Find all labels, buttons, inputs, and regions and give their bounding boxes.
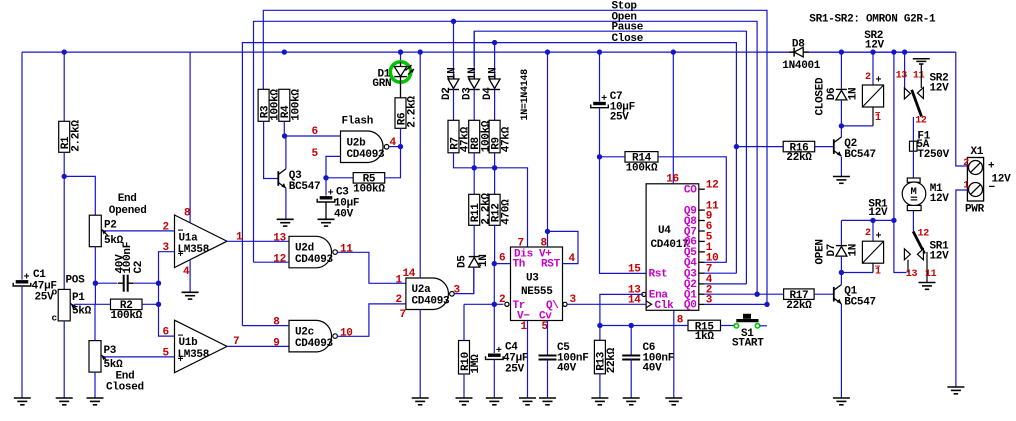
node R2 right	[156, 302, 161, 307]
transistor Q3	[277, 171, 279, 186]
ground C3	[318, 218, 335, 220]
svg-text:2.2kΩ: 2.2kΩ	[70, 120, 82, 152]
svg-text:1N: 1N	[488, 68, 500, 81]
node D4 on Close bus	[492, 40, 497, 45]
svg-text:3: 3	[454, 285, 461, 297]
svg-text:CD4093: CD4093	[295, 338, 334, 350]
node rail junction U4 pin16	[671, 49, 676, 54]
svg-text:8: 8	[541, 237, 548, 249]
U4 pin16 wire	[672, 52, 674, 184]
svg-text:X1: X1	[971, 146, 984, 158]
relay coil SR1	[872, 220, 874, 241]
svg-text:14: 14	[403, 268, 416, 280]
op-amp U1a	[175, 215, 228, 268]
node D2 on Open bus	[451, 19, 456, 24]
counter U4 CD4017	[646, 184, 699, 310]
svg-text:12: 12	[918, 229, 930, 240]
svg-text:RST: RST	[541, 259, 561, 271]
svg-text:40V: 40V	[557, 363, 577, 375]
wire U1a pin8 to rail	[189, 52, 191, 223]
capacitor C4	[493, 304, 495, 353]
svg-text:6: 6	[163, 327, 169, 339]
wire U2a output to D5 and Tr	[454, 268, 474, 294]
svg-text:OPEN: OPEN	[815, 239, 827, 264]
svg-text:CD4093: CD4093	[412, 296, 451, 308]
node Q1 collector	[839, 270, 844, 275]
diode D3 1N4148	[473, 31, 475, 79]
connector X1	[967, 158, 983, 202]
svg-text:3: 3	[163, 242, 170, 254]
node U2b out/R6/R5	[398, 144, 403, 149]
svg-text:6: 6	[499, 252, 505, 264]
svg-text:25V: 25V	[610, 112, 630, 124]
svg-text:CD4093: CD4093	[295, 254, 334, 266]
svg-text:11: 11	[913, 70, 925, 81]
svg-text:P1: P1	[72, 292, 85, 304]
svg-text:2: 2	[396, 294, 402, 306]
svg-text:Q0: Q0	[684, 300, 697, 312]
svg-text:Flash: Flash	[342, 115, 374, 127]
svg-text:8: 8	[677, 315, 684, 327]
wire R5 to U2b output node	[385, 147, 401, 178]
svg-text:U4: U4	[658, 225, 671, 237]
capacitor C2	[95, 282, 117, 284]
svg-text:2: 2	[163, 221, 169, 233]
potentiometer P1	[58, 289, 70, 321]
node rail junction SR2 coil	[870, 49, 875, 54]
resistor R14	[625, 152, 658, 163]
wire SR2 common to F1	[912, 117, 914, 141]
svg-text:CLOSED: CLOSED	[815, 77, 827, 116]
wire D5 to U2a output wire	[473, 267, 475, 294]
wire Tr node to R10	[464, 303, 494, 305]
svg-text:12V: 12V	[992, 173, 1012, 185]
capacitor C1	[21, 52, 23, 280]
svg-text:8: 8	[273, 317, 280, 329]
wire S1 to Stop net	[760, 325, 767, 327]
svg-text:1N=1N4148: 1N=1N4148	[520, 69, 531, 121]
svg-text:C2: C2	[133, 261, 145, 274]
wire U2b pin5	[326, 156, 341, 177]
capacitor C7	[599, 52, 601, 101]
relay coil SR2	[872, 52, 874, 85]
U3 Tr inversion bubble	[505, 302, 509, 306]
capacitor C5	[547, 321, 549, 356]
svg-text:c: c	[52, 313, 58, 324]
svg-text:U1b: U1b	[179, 337, 199, 349]
ground C5	[539, 397, 556, 399]
svg-text:5kΩ: 5kΩ	[104, 235, 124, 247]
wire Close to U2c pin8	[242, 325, 289, 327]
ground U1a	[182, 291, 199, 293]
node A R1/P2/P1	[61, 174, 66, 179]
svg-text:470Ω: 470Ω	[501, 199, 513, 225]
ground C4	[486, 397, 503, 399]
U3 Q output bubble	[563, 302, 567, 306]
U4 pin8 wire to ground	[673, 310, 675, 398]
gate U2c	[289, 320, 332, 352]
diode D5 1N4148	[469, 256, 480, 258]
svg-text:D2: D2	[441, 87, 453, 100]
svg-text:1MΩ: 1MΩ	[470, 354, 482, 374]
svg-text:Rst: Rst	[649, 269, 668, 281]
wire R15 to S1	[721, 325, 735, 327]
svg-text:End: End	[118, 193, 137, 205]
resistor R1	[63, 52, 65, 121]
svg-text:M: M	[911, 186, 917, 198]
capacitor C6	[630, 326, 632, 356]
SR2 contact pin11 + ground above	[920, 65, 922, 89]
wire U2c output to U2a pin2	[337, 304, 406, 336]
wire R14 to Q4	[658, 157, 726, 262]
wire RST bridge	[548, 231, 579, 263]
wire P3 bottom to ground	[94, 372, 96, 398]
svg-text:BC547: BC547	[289, 181, 321, 193]
node Q0/Stop	[764, 302, 769, 307]
svg-text:9: 9	[273, 337, 279, 349]
wire U1a output to U2d pin13	[227, 240, 289, 242]
wire R12 to Th node	[494, 225, 496, 263]
svg-text:D4: D4	[482, 87, 494, 100]
svg-text:6: 6	[312, 126, 318, 138]
svg-text:15: 15	[628, 264, 641, 276]
ground Q2	[833, 176, 850, 178]
node rail junction U3 V+	[545, 49, 550, 54]
resistor R8	[469, 120, 480, 153]
svg-text:+: +	[496, 346, 502, 357]
svg-text:25V: 25V	[505, 364, 525, 376]
LED D1	[400, 52, 402, 62]
svg-text:P2: P2	[104, 220, 117, 232]
wire Pause bus line	[474, 31, 746, 284]
svg-text:11: 11	[340, 244, 353, 256]
resistor R16	[783, 141, 815, 152]
svg-text:14: 14	[628, 295, 641, 307]
diode D2 1N4148	[453, 21, 455, 79]
op-amp U1b	[175, 320, 228, 373]
resistor R6	[395, 98, 406, 129]
ground U4 pin8	[665, 397, 682, 399]
wire U2a pin7 to ground	[419, 310, 421, 399]
resistor R7	[448, 120, 459, 153]
svg-text:1N: 1N	[848, 88, 860, 101]
svg-text:+: +	[328, 189, 334, 200]
svg-text:13: 13	[906, 269, 918, 280]
wire Q3 to Close	[705, 272, 737, 274]
potentiometer P3	[89, 341, 101, 373]
svg-text:12V: 12V	[930, 251, 950, 263]
svg-text:GRN: GRN	[372, 78, 391, 90]
wire Ena net	[600, 294, 643, 325]
node Th	[492, 261, 497, 266]
node Tr	[492, 302, 497, 307]
gate U2a	[406, 278, 449, 310]
wire Ena horizontal to R15	[600, 325, 688, 327]
motor M1	[907, 178, 920, 182]
wire M1 to SR1 common	[912, 211, 914, 232]
svg-text:1N: 1N	[447, 68, 459, 81]
relay contact SR2	[893, 52, 895, 220]
wire U2b output	[389, 146, 401, 148]
resistor R5	[353, 173, 385, 184]
resistor R9	[489, 120, 500, 153]
switch S1 START	[734, 324, 738, 328]
svg-text:POS: POS	[66, 275, 86, 287]
node V+/RST bridge	[545, 229, 550, 234]
node R13 top	[597, 323, 602, 328]
svg-text:100kΩ: 100kΩ	[290, 89, 302, 121]
resistor R2	[111, 299, 143, 310]
wire Q3 collector	[285, 136, 287, 169]
wire R7 bottom to Dis net	[454, 153, 528, 247]
svg-text:U2b: U2b	[347, 137, 367, 149]
node C7/R14	[597, 154, 602, 159]
ground X1	[947, 386, 964, 388]
svg-text:12V: 12V	[930, 82, 950, 94]
wire Q0 to Stop	[705, 303, 767, 305]
node rail junction R1	[61, 49, 66, 54]
svg-text:D5: D5	[456, 255, 468, 268]
node rail junction SR2 contact feed	[902, 49, 907, 54]
wire Open bus line	[254, 21, 758, 294]
wire Q1 collector	[840, 273, 842, 285]
svg-text:22kΩ: 22kΩ	[786, 300, 812, 312]
svg-text:40V: 40V	[334, 209, 354, 221]
svg-text:CO: CO	[684, 185, 697, 197]
ground SR1 pin11	[919, 282, 936, 284]
svg-text:47kΩ: 47kΩ	[501, 126, 513, 152]
wire +12V rail	[22, 51, 956, 53]
svg-text:Clk: Clk	[655, 300, 675, 312]
transistor Q1	[814, 293, 834, 295]
wire U1b output to U2c pin9	[227, 345, 289, 347]
svg-text:P3: P3	[104, 345, 117, 357]
node rail junction SR1 contact feed	[891, 49, 896, 54]
svg-text:Th: Th	[513, 259, 526, 271]
wire Q1 emitter to ground	[840, 304, 842, 398]
svg-text:D3: D3	[462, 87, 474, 100]
wire U2d output to U2a pin1	[337, 252, 406, 283]
node Q1/Open	[754, 292, 759, 297]
svg-text:13: 13	[273, 232, 286, 244]
wire F1 to M1	[912, 151, 914, 178]
wire P2 bottom	[94, 247, 96, 284]
wire R2 node down to U1b pin6	[159, 304, 175, 336]
resistor R3	[258, 89, 269, 121]
node rail junction U2a pin14	[418, 49, 423, 54]
LED D1 arrows	[406, 65, 412, 71]
wire Close tee to R16	[736, 146, 783, 148]
wire X1 pin1 to ground	[956, 190, 968, 387]
wire Open to U2d pin12	[254, 261, 290, 263]
svg-text:100kΩ: 100kΩ	[353, 183, 385, 195]
wire P1 wiper to R2	[74, 303, 111, 305]
svg-text:End: End	[116, 371, 135, 383]
svg-text:Close: Close	[612, 33, 644, 45]
svg-text:10: 10	[340, 328, 353, 340]
svg-text:1N4001: 1N4001	[782, 60, 821, 72]
svg-text:PWR: PWR	[965, 204, 985, 216]
svg-text:1: 1	[521, 321, 528, 333]
svg-text:1: 1	[875, 113, 881, 124]
svg-text:7: 7	[518, 237, 524, 249]
ground R13	[591, 397, 608, 399]
wire Q2 to Pause	[705, 283, 747, 285]
svg-text:BC547: BC547	[844, 149, 876, 161]
wire rail to X1 pin2	[956, 52, 968, 166]
node Q2 collector	[839, 123, 844, 128]
svg-text:o: o	[52, 287, 58, 298]
svg-text:16: 16	[666, 174, 679, 186]
ground U3 pin1	[519, 397, 536, 399]
wire U2a pin14 to rail	[419, 52, 421, 278]
wire R11 to D5	[473, 225, 475, 256]
wire Q1 to Open/R17	[705, 293, 784, 295]
ground C6	[623, 397, 640, 399]
wire C7 node down to Rst	[600, 157, 647, 274]
svg-text:5: 5	[163, 347, 170, 359]
svg-text:12V: 12V	[865, 40, 885, 52]
node rail junction D6	[839, 49, 844, 54]
svg-text:22kΩ: 22kΩ	[786, 152, 812, 164]
svg-text:SR1-SR2: OMRON G2R-1: SR1-SR2: OMRON G2R-1	[809, 13, 936, 25]
node R9/R12	[494, 153, 496, 195]
svg-text:1N: 1N	[478, 254, 490, 267]
svg-text:40V: 40V	[643, 363, 663, 375]
svg-text:BC547: BC547	[844, 297, 876, 309]
wire P3 top	[94, 304, 96, 340]
svg-text:2: 2	[865, 228, 871, 239]
ground P3	[87, 397, 104, 399]
wire SR1 top net	[841, 219, 894, 221]
svg-text:+: +	[24, 273, 30, 284]
wire U3 V+ pin8	[547, 52, 549, 247]
node rail junction C7	[597, 49, 602, 54]
wire Q2 emitter to ground	[840, 157, 842, 177]
svg-text:CD4017: CD4017	[651, 239, 689, 251]
ground P1	[56, 397, 73, 399]
wire Close bus line	[242, 43, 736, 326]
svg-text:U2d: U2d	[295, 242, 314, 254]
svg-text:12V: 12V	[868, 207, 888, 219]
svg-text:100kΩ: 100kΩ	[626, 162, 658, 174]
svg-text:LM358: LM358	[178, 349, 210, 361]
svg-text:1kΩ: 1kΩ	[695, 331, 715, 343]
svg-text:12V: 12V	[930, 193, 950, 205]
svg-text:13: 13	[896, 70, 908, 81]
node C2 right	[156, 281, 161, 286]
wire Th to Tr tie	[493, 264, 495, 305]
resistor R15	[688, 320, 721, 331]
capacitor C3	[325, 178, 327, 196]
svg-text:1N: 1N	[467, 68, 479, 81]
svg-text:11: 11	[925, 269, 937, 280]
wire U3 output to U4 Clk	[567, 303, 646, 305]
node SR1 contact13 tee	[891, 218, 896, 223]
transistor Q2	[815, 146, 834, 148]
node C6 top	[629, 323, 634, 328]
svg-text:1N: 1N	[848, 244, 860, 257]
svg-text:+: +	[988, 161, 995, 173]
svg-text:2.2kΩ: 2.2kΩ	[407, 96, 419, 128]
svg-text:U1a: U1a	[179, 232, 199, 244]
wire Tr node to U3 Tr pin	[494, 303, 503, 305]
resistor R17	[784, 289, 815, 300]
svg-text:D7: D7	[826, 244, 838, 257]
svg-text:NE555: NE555	[521, 286, 553, 298]
diode D4 1N4148	[494, 43, 496, 80]
node rail junction D1	[398, 49, 403, 54]
svg-text:1: 1	[875, 267, 881, 278]
node Close/R16 tee	[734, 144, 739, 149]
wire P2 wiper to U1a pin2	[105, 230, 175, 232]
diode D8 1N4001	[767, 51, 789, 53]
svg-text:+: +	[876, 232, 882, 243]
svg-text:Closed: Closed	[106, 382, 144, 394]
svg-text:U2a: U2a	[412, 284, 432, 296]
SR2 armature	[912, 90, 922, 117]
timer U3 NE555	[511, 247, 563, 321]
wire node to R5	[326, 177, 353, 179]
resistor R4	[279, 89, 290, 121]
node POS P2/C2	[93, 281, 98, 286]
resistor R12	[489, 194, 500, 225]
wire Stop bus line	[263, 10, 767, 304]
wire node to U2b pin6	[285, 135, 341, 137]
ground C1	[14, 397, 31, 399]
diode D7	[840, 220, 842, 245]
svg-text:4: 4	[183, 266, 190, 278]
node SR1 coil top	[870, 218, 875, 223]
wire node A to P2	[64, 176, 95, 215]
svg-text:2: 2	[963, 158, 969, 169]
wire P3 wiper to U1b pin5	[104, 356, 175, 358]
svg-text:12: 12	[915, 115, 927, 126]
svg-text:U2c: U2c	[295, 326, 314, 338]
svg-text:100kΩ: 100kΩ	[110, 310, 142, 322]
svg-text:7: 7	[400, 309, 406, 321]
wire rail to SR1 contact 13	[894, 220, 907, 272]
wire P1 bottom to ground	[63, 321, 65, 398]
node C3/R5	[323, 175, 328, 180]
svg-text:CD4093: CD4093	[347, 149, 386, 161]
wire node A to P1	[63, 176, 65, 289]
svg-text:12: 12	[706, 179, 719, 191]
wire SR2 coil bottom to Q2 collector	[841, 125, 873, 127]
gate U2d	[289, 236, 332, 267]
svg-text:LM358: LM358	[178, 244, 210, 256]
svg-text:2: 2	[865, 72, 871, 83]
resistor R11	[469, 194, 480, 225]
svg-text:+: +	[601, 94, 607, 105]
svg-text:1: 1	[396, 275, 403, 287]
wire R3 bottom to Q3 base	[264, 121, 279, 178]
ground Q1	[833, 397, 850, 399]
node R8/R11	[473, 153, 475, 195]
node rail junction R4	[282, 49, 287, 54]
wire Q2 collector	[840, 126, 842, 138]
ground U2a	[412, 397, 429, 399]
svg-text:22kΩ: 22kΩ	[606, 347, 618, 373]
potentiometer P2	[89, 215, 101, 247]
svg-text:T250V: T250V	[917, 149, 949, 161]
svg-text:START: START	[732, 337, 764, 349]
svg-text:5: 5	[312, 148, 319, 160]
fuse F1	[910, 141, 918, 151]
svg-text:D6: D6	[826, 88, 838, 101]
node R4/Q3/U2b pin6	[282, 133, 287, 138]
wire SR1 coil bottom to Q1 collector	[841, 272, 873, 274]
